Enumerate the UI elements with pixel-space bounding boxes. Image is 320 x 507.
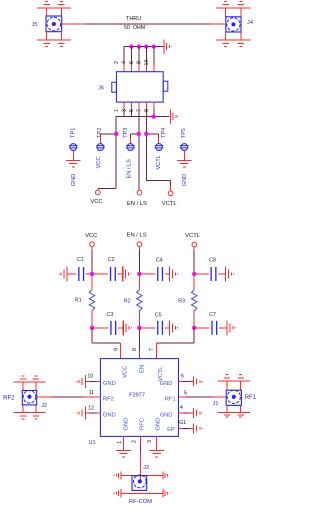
label 50 OHM [124, 25, 145, 31]
resistor R2 [137, 290, 142, 312]
wire EN rail to R2 [138, 274, 140, 290]
label J5 [32, 22, 38, 28]
svg-text:VCC: VCC [122, 366, 128, 378]
capacitor C8 [211, 267, 216, 281]
port VCTL (upper) [168, 191, 173, 196]
test point TP4 [155, 144, 164, 151]
wire VCC rail to R1 [91, 274, 93, 290]
svg-text:7: 7 [136, 109, 142, 112]
svg-text:EN / LS: EN / LS [126, 159, 132, 179]
svg-text:VCTL: VCTL [156, 155, 162, 169]
svg-text:3: 3 [147, 440, 153, 443]
svg-text:TP4: TP4 [161, 128, 167, 138]
pin name GND (right bottom) [160, 412, 173, 418]
net label GND (TP1) [71, 174, 77, 186]
svg-text:VCTL: VCTL [158, 366, 164, 382]
svg-text:C4: C4 [156, 257, 163, 263]
wire TP2 branch [100, 134, 116, 144]
svg-text:RF1: RF1 [165, 396, 176, 402]
wire R3 to C7 node [193, 311, 195, 328]
connector J2 [22, 391, 36, 405]
wire RF1 net [179, 396, 227, 398]
wire C5 right stub [165, 327, 170, 329]
label C7 [209, 312, 216, 318]
net label EN/LS (TP3) [126, 159, 132, 179]
svg-text:8: 8 [136, 61, 142, 64]
wire J3 lower ground rail [121, 492, 163, 494]
wire pin 2 / RFC net [140, 436, 142, 479]
ground (C3, rotated) [123, 320, 131, 335]
label R3 [178, 298, 185, 304]
test point TP3 [126, 144, 134, 151]
port VCTL (lower) [192, 242, 197, 247]
wire J4 ground stems bottom [226, 32, 241, 40]
ground (J3 upper right) [163, 471, 170, 479]
wire J2 ground stems bottom [23, 405, 36, 413]
svg-text:RF-COM: RF-COM [129, 499, 152, 505]
svg-text:J4: J4 [247, 20, 253, 26]
label VCC (upper port) [90, 199, 102, 205]
svg-text:12: 12 [88, 406, 94, 412]
pin name RFC [140, 418, 146, 430]
wire THRU net J5 to J4 [62, 23, 226, 25]
label J4 [247, 20, 253, 26]
ground (J3 lower left) [114, 489, 121, 497]
label TP5 [181, 128, 187, 138]
label RF1 [245, 395, 257, 401]
label J1 [213, 401, 219, 407]
svg-text:10: 10 [144, 60, 150, 66]
ground (J6 bottom, rotated) [170, 109, 178, 124]
wire C2 right stub [118, 273, 123, 275]
svg-text:10: 10 [88, 373, 94, 379]
label C1 [77, 257, 84, 263]
svg-text:GND: GND [103, 381, 116, 387]
test point TP5 [180, 144, 189, 151]
wire VCTL rail (filter top) [193, 247, 195, 274]
svg-text:J6: J6 [98, 86, 104, 92]
wire VCC to pin 9 [92, 328, 121, 359]
svg-text:GND: GND [124, 418, 130, 431]
wire J6 top pin stubs [124, 47, 154, 72]
pin 10 stub + ground [77, 375, 101, 388]
svg-text:TP3: TP3 [123, 128, 129, 138]
wire pin 1 stub [123, 436, 125, 450]
svg-text:G1: G1 [179, 420, 186, 426]
svg-text:EN: EN [140, 365, 146, 373]
port EN/LS (upper) [137, 190, 142, 195]
pin name RF1 [165, 396, 176, 402]
svg-text:8: 8 [132, 348, 138, 351]
wire VCTL rail to R3 [193, 274, 195, 290]
pin name GND (bottom right) [156, 418, 162, 431]
label VCTL (upper port) [162, 201, 178, 207]
svg-text:C2: C2 [108, 257, 115, 263]
svg-text:4: 4 [121, 61, 127, 64]
label J3 [143, 465, 149, 471]
label RF2 [3, 395, 15, 401]
svg-text:RFC: RFC [140, 418, 146, 430]
wire C3 right stub [118, 327, 123, 329]
svg-text:U1: U1 [88, 440, 95, 446]
svg-text:6: 6 [181, 373, 184, 379]
pin name GND (left top) [103, 381, 116, 387]
wire C1 right stub [86, 273, 92, 275]
svg-text:C1: C1 [77, 257, 84, 263]
svg-text:C5: C5 [155, 312, 162, 318]
pin name GND (right top) [160, 381, 173, 387]
label VCC (lower port) [85, 233, 97, 239]
wire TP3 branch [131, 134, 139, 144]
ground (TP5) [177, 160, 192, 166]
wire TP5 to ground [183, 151, 185, 161]
junction dots J6 top [129, 44, 156, 48]
junction dot VCTL row1 [192, 272, 196, 276]
wire J3 upper ground rail [121, 474, 163, 476]
pin name VCC [122, 366, 128, 378]
port EN/LS (lower) [137, 242, 142, 247]
label R1 [75, 297, 82, 303]
svg-text:EN / LS: EN / LS [127, 201, 147, 207]
net label VCC (TP2) [96, 156, 102, 168]
ground (C5, rotated) [169, 320, 177, 335]
pin number 7 [149, 348, 155, 351]
ground (top, J1) [217, 375, 250, 381]
svg-text:11: 11 [89, 390, 94, 396]
svg-text:J1: J1 [213, 401, 219, 407]
net label GND (TP5) [182, 174, 188, 186]
capacitor C2 [111, 267, 116, 281]
pin name GND (bottom left) [124, 418, 130, 431]
wire J5 ground stems top [47, 8, 62, 16]
wire VCTL rail from J6 [146, 117, 170, 191]
capacitor C3 [111, 321, 116, 335]
svg-text:J2: J2 [41, 403, 47, 409]
pin number 6 [181, 373, 184, 379]
pin number 5 [184, 391, 187, 397]
ground (bottom, J1) [217, 412, 250, 417]
test point TP1 [69, 144, 78, 151]
svg-text:GND: GND [160, 412, 173, 418]
pin number 8 [132, 348, 138, 351]
svg-text:RF2: RF2 [3, 395, 15, 401]
ground (J3 upper left) [114, 471, 121, 479]
svg-text:9: 9 [113, 348, 119, 351]
wire C8 right stub [218, 273, 225, 275]
svg-text:TP1: TP1 [71, 128, 77, 138]
label J2 [41, 403, 47, 409]
pin numbers J6 bottom 1,3,5,7,9 [114, 109, 150, 112]
wire J5 ground stems bottom [47, 32, 62, 41]
pin number 12 [88, 406, 94, 412]
label C2 [108, 257, 115, 263]
label THRU [126, 16, 141, 22]
junction dot VCC/TP2 [114, 132, 118, 136]
svg-text:4: 4 [180, 405, 183, 411]
svg-text:GND: GND [103, 412, 116, 418]
wire C3 left stub [92, 327, 109, 329]
svg-text:2: 2 [132, 440, 138, 443]
pin name RF2 [103, 396, 114, 402]
junction dot VCTL/TP4 [144, 132, 148, 136]
junction dot VCC row2 [90, 326, 94, 330]
label TP1 [71, 128, 77, 138]
port VCC (lower) [90, 242, 95, 247]
svg-text:VCTL: VCTL [162, 201, 178, 207]
wire VCTL to pin 7 [157, 328, 195, 359]
ground (bottom, J2) [14, 413, 46, 419]
svg-text:VCTL: VCTL [185, 233, 201, 239]
svg-text:R1: R1 [75, 297, 82, 303]
junction dot J6 pin 9 [152, 114, 156, 118]
op-amp U1 body (F2977) [100, 359, 178, 437]
label F2977 [129, 392, 145, 398]
port VCC (upper) [95, 190, 100, 195]
pin number 2 [132, 440, 138, 443]
label TP3 [123, 128, 129, 138]
ground (bottom, J4) [216, 40, 250, 46]
ground (top, J2) [14, 376, 46, 382]
connector J6 body [112, 72, 168, 102]
pin number G1 [179, 420, 186, 426]
junction dot EN row2 [137, 326, 141, 330]
pin name VCTL [158, 366, 164, 382]
svg-text:VCC: VCC [96, 156, 102, 168]
label TP4 [161, 128, 167, 138]
svg-text:F2977: F2977 [129, 392, 145, 398]
wire TP4 branch [146, 134, 158, 144]
wire C4 right stub [165, 273, 170, 275]
ground (top, J5) [37, 2, 71, 8]
connector J5 [46, 16, 62, 32]
svg-text:6: 6 [129, 61, 135, 64]
svg-text:GND: GND [71, 174, 77, 186]
svg-text:1: 1 [114, 109, 120, 112]
label C3 [106, 312, 113, 318]
svg-text:GND: GND [182, 174, 188, 186]
net label VCTL (TP4) [156, 155, 162, 169]
test point TP2 [96, 144, 105, 151]
ground (top, J4) [216, 2, 250, 8]
pin number 10 [88, 373, 94, 379]
wire J6 bottom pin stubs [124, 102, 154, 117]
ground (pin 1) [116, 450, 131, 457]
wire pin 3 stub [156, 436, 158, 450]
svg-text:5: 5 [184, 391, 187, 397]
wire C8 left stub [194, 273, 209, 275]
pin name EP [167, 427, 175, 433]
svg-text:C7: C7 [209, 312, 216, 318]
svg-text:C8: C8 [209, 257, 216, 263]
capacitor C5 [158, 321, 163, 335]
wire VCC rail from J6 [98, 117, 116, 191]
svg-text:EN / LS: EN / LS [127, 232, 147, 238]
svg-text:J3: J3 [143, 465, 149, 471]
svg-text:OHM: OHM [133, 25, 145, 31]
wire C1 left stub [67, 273, 77, 275]
svg-text:5: 5 [129, 109, 135, 112]
capacitor C1 [79, 267, 84, 281]
junction dot EN/TP3 [137, 132, 141, 136]
svg-text:7: 7 [149, 348, 155, 351]
wire J1 ground stems top [227, 381, 241, 390]
svg-text:R3: R3 [178, 298, 185, 304]
wire C4 left stub [139, 273, 155, 275]
junction dot EN row1 [137, 272, 141, 276]
wire C7 left stub [194, 327, 210, 329]
svg-text:1: 1 [117, 441, 123, 444]
pin number 3 [147, 440, 153, 443]
pin numbers J6 top 2,4,6,8,10 [114, 60, 150, 66]
wire J2 ground stems top [23, 382, 36, 390]
connector J1 [226, 390, 241, 405]
ground (C8, rotated) [225, 267, 233, 282]
svg-text:9: 9 [144, 109, 150, 112]
svg-text:50: 50 [124, 25, 130, 31]
ground (C4, rotated) [169, 267, 177, 282]
svg-text:RF2: RF2 [103, 396, 114, 402]
pin 4 stub + ground [179, 408, 203, 418]
wire R1 to C3 node [91, 311, 93, 328]
wire J6 top ground bus [124, 46, 164, 48]
svg-text:R2: R2 [124, 298, 131, 304]
label R2 [124, 298, 131, 304]
ground (C1, rotated) [59, 267, 67, 282]
junction dot VCC row1 [90, 272, 94, 276]
label RF-COM [129, 499, 152, 505]
junction dot VCTL row2 [192, 326, 196, 330]
wire VCC rail (filter top) [91, 247, 93, 274]
svg-text:2: 2 [114, 61, 120, 64]
pin number 9 [113, 348, 119, 351]
wire EN/LS rail from J6 [138, 117, 140, 191]
svg-text:C3: C3 [106, 312, 113, 318]
svg-text:GND: GND [160, 381, 173, 387]
svg-text:GND: GND [156, 418, 162, 431]
wire R2 to C5 node [138, 311, 140, 328]
pin number 4 [180, 405, 183, 411]
resistor R1 [89, 290, 94, 312]
pin name GND (left bottom) [103, 412, 116, 418]
ground (J3 lower right) [163, 489, 170, 497]
pin 6 stub + ground [179, 377, 203, 387]
label U1 [88, 440, 95, 446]
ground (J6 top, rotated) [164, 39, 172, 54]
connector J3 [132, 475, 147, 490]
wire RF2 net [37, 396, 101, 398]
wire J1 ground stems bottom [227, 405, 241, 412]
wire TP1 to ground [72, 151, 74, 161]
wire C7 right stub [219, 327, 227, 329]
label C4 [156, 257, 163, 263]
label VCTL (lower port) [185, 233, 201, 239]
wire J4 ground stems top [226, 8, 241, 17]
svg-text:3: 3 [121, 109, 127, 112]
pin name EN [140, 365, 146, 373]
label EN/LS (upper port) [127, 201, 147, 207]
wire C2 left stub [92, 273, 108, 275]
wire J6 bottom ground bus [116, 116, 169, 118]
wire C5 left stub [139, 327, 155, 329]
svg-text:EP: EP [167, 427, 175, 433]
svg-text:TP2: TP2 [97, 128, 103, 138]
svg-text:TP5: TP5 [181, 128, 187, 138]
label C8 [209, 257, 216, 263]
capacitor C7 [212, 321, 217, 335]
capacitor C4 [158, 267, 163, 281]
ground (C7, rotated) [227, 320, 235, 335]
label TP2 [97, 128, 103, 138]
connector J4 [226, 17, 241, 32]
wire EN to pin 8 [138, 328, 140, 359]
ground (bottom, J5) [37, 40, 71, 46]
pin 12 stub + ground [77, 407, 101, 420]
pin number 11 [89, 390, 94, 396]
ground (TP1) [66, 160, 81, 166]
pin number 1 [117, 441, 123, 444]
svg-text:VCC: VCC [85, 233, 97, 239]
svg-text:RF1: RF1 [245, 395, 257, 401]
svg-text:VCC: VCC [90, 199, 102, 205]
pin EP stub + ground [179, 423, 203, 433]
label J6 [98, 86, 104, 92]
resistor R3 [192, 290, 197, 312]
label EN/LS (lower port) [127, 232, 147, 238]
svg-text:THRU: THRU [126, 16, 141, 22]
svg-text:J5: J5 [32, 22, 38, 28]
wire EN rail (filter top) [138, 247, 140, 274]
ground (pin 3) [149, 450, 164, 457]
label C5 [155, 312, 162, 318]
ground (C2, rotated) [123, 267, 131, 282]
